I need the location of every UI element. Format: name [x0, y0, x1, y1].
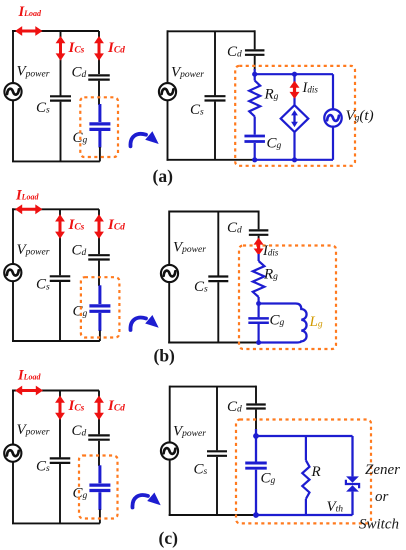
wire: Cs branch lower (c-right)	[216, 457, 218, 515]
wire: Cd branch blue lower (b-left)	[98, 313, 101, 331]
wire: Cs branch lower (a-left)	[60, 102, 62, 162]
node bottom-left (c-right)	[253, 512, 259, 518]
wire: section (b) left circuit left side lower	[12, 281, 14, 342]
wire: blue bottom rail (a-right)	[255, 159, 333, 161]
capacitor Cs (b-left)	[50, 275, 71, 277]
capacitor Cg (a-right)	[244, 135, 265, 138]
svg-text:Vpower: Vpower	[17, 64, 50, 80]
svg-text:Vpower: Vpower	[171, 65, 204, 81]
orange dashed box (b-left)	[81, 277, 120, 337]
wire: section (b) left circuit left side upper	[12, 208, 14, 264]
current arrow ILoad (a-left)	[21, 30, 37, 33]
AC source Vpower (a-right)	[159, 83, 176, 100]
capacitor Cg blue (b-left)	[89, 304, 110, 307]
svg-text:Cs: Cs	[36, 100, 50, 116]
capacitor Cd (a-right)	[245, 49, 265, 51]
svg-text:Cd: Cd	[72, 65, 87, 81]
wire: Rg-Cg link (a-right)	[254, 117, 256, 135]
current arrow ICd (b-left)	[98, 220, 101, 233]
current arrow ICd (c-left)	[98, 401, 101, 414]
wire: Cd branch upper (b-right)	[258, 211, 260, 230]
wire: Vg branch lower (a-right)	[332, 127, 334, 160]
dependent current source diamond (a-right)	[281, 105, 309, 132]
svg-text:ICd: ICd	[107, 40, 125, 56]
wire: Cg bottom lead (c-right)	[255, 470, 257, 515]
wire: Cd branch blue lower (c-left)	[98, 492, 101, 510]
wire: section (b) left circuit top rail	[12, 208, 99, 210]
AC source Vpower (b-left)	[4, 264, 21, 281]
wire: Cs branch upper (c-left)	[59, 391, 61, 458]
capacitor Cs (a-right)	[205, 95, 226, 97]
AC source Vpower (a-left)	[4, 83, 21, 100]
wire: Cd branch bottom black (a-left)	[99, 147, 101, 161]
resistor Rg (b-right)	[253, 261, 265, 297]
wire: Cs branch upper (b-right)	[217, 212, 219, 276]
wire: section (a) right circuit bottom rail black	[167, 159, 256, 161]
current arrow ICd (a-left)	[98, 42, 101, 55]
resistor Rg (a-right)	[249, 81, 260, 117]
svg-text:Cg: Cg	[270, 313, 285, 329]
wire: Cd below cap black (c-right)	[255, 410, 257, 430]
wire: Vg branch upper (a-right)	[332, 74, 334, 109]
capacitor Cd (c-left)	[88, 434, 110, 436]
wire: Cs branch upper (a-left)	[60, 31, 62, 96]
wire: Cs branch lower (c-left)	[59, 464, 61, 523]
svg-text:Vpower: Vpower	[17, 422, 50, 438]
svg-text:ILoad: ILoad	[18, 4, 43, 20]
node top-mid (a-right)	[292, 72, 297, 77]
svg-text:R: R	[311, 464, 321, 480]
orange dashed box (a-right)	[235, 66, 355, 166]
svg-text:Zener: Zener	[365, 462, 400, 478]
wire: section (c) left circuit bottom rail	[12, 522, 100, 524]
capacitor Cd (a-left)	[88, 74, 110, 76]
wire: section (a) right left side lower	[167, 100, 169, 161]
wire: section (c) left circuit top rail	[12, 390, 99, 392]
wire: Cd branch bottom black (c-left)	[99, 509, 101, 523]
wire: section (c) left circuit left side lower	[12, 462, 14, 524]
wire: Cd branch upper (c-right)	[255, 386, 257, 404]
svg-text:Cd: Cd	[227, 44, 242, 60]
svg-text:Vth: Vth	[327, 499, 344, 515]
wire: Cd branch bottom black (b-left)	[99, 330, 101, 341]
svg-text:Vpower: Vpower	[173, 424, 206, 440]
wire: blue top rail (a-right)	[255, 73, 333, 75]
zener diode (c-right)	[346, 476, 359, 482]
wire: Cs branch lower (a-right)	[214, 102, 216, 160]
svg-text:Cd: Cd	[72, 423, 87, 439]
wire: R branch top lead (c-right)	[305, 436, 307, 460]
svg-text:ICs: ICs	[68, 398, 85, 414]
svg-text:Vpower: Vpower	[173, 240, 206, 256]
wire: section (a) left circuit left side upper	[12, 30, 14, 83]
wire: Cs branch upper (a-right)	[214, 31, 216, 95]
svg-text:(a): (a)	[153, 166, 174, 186]
svg-text:Idis: Idis	[302, 80, 319, 96]
svg-text:(b): (b)	[154, 346, 176, 366]
wire: section (c) right left side upper	[169, 386, 171, 443]
wire: Cd branch blue upper (c-left)	[98, 465, 101, 483]
wire: Cg bottom lead (a-right)	[254, 143, 256, 160]
blue curved arrow (b)	[130, 318, 146, 330]
wire: Rg branch top lead (a-right)	[254, 74, 256, 80]
svg-text:Cs: Cs	[36, 459, 50, 475]
wire: blue bottom rail (c-right)	[256, 514, 353, 516]
svg-text:Cd: Cd	[227, 220, 242, 236]
capacitor Cs (a-left)	[50, 95, 71, 97]
svg-text:Cd: Cd	[72, 243, 87, 259]
wire: Cd branch mid black (b-left)	[98, 261, 100, 286]
wire: section (a) right circuit top rail	[168, 30, 255, 32]
wire: Cd branch mid black (c-left)	[98, 441, 100, 466]
wire: Cs branch lower (b-right)	[217, 282, 219, 342]
AC source Vpower (c-left)	[4, 445, 21, 462]
current arrow ICs (a-left)	[59, 42, 62, 55]
wire: Cs branch upper (b-left)	[59, 209, 61, 275]
node top-left of blue network (a-right)	[252, 72, 257, 77]
current arrow ILoad (b-left)	[21, 208, 37, 211]
wire: section (b) left circuit bottom rail	[12, 340, 100, 342]
svg-text:Cg: Cg	[267, 136, 282, 152]
wire: blue top rail (c-right)	[256, 435, 353, 437]
wire: Cd to node blue (c-right)	[255, 429, 257, 436]
wire: section (c) right circuit bottom rail black	[169, 514, 256, 516]
blue curved arrow (a)	[130, 134, 146, 146]
capacitor Cs (c-left)	[50, 457, 71, 459]
wire: Cd branch upper (c-left)	[98, 391, 100, 435]
current arrow Idis (a-right)	[293, 86, 296, 93]
svg-text:Vg(t): Vg(t)	[346, 108, 374, 124]
svg-text:(c): (c)	[159, 528, 179, 548]
wire: Cd branch upper (b-left)	[98, 209, 100, 254]
node upper (b-right)	[256, 301, 261, 306]
orange dashed box (a-left)	[80, 97, 118, 157]
svg-text:ILoad: ILoad	[17, 368, 42, 384]
current arrow ILoad (c-left)	[21, 389, 38, 392]
wire: section (c) left circuit left side upper	[12, 390, 14, 445]
wire: Cd below cap (b-right)	[258, 236, 260, 240]
capacitor Cd (b-left)	[88, 254, 110, 256]
wire: section (a) left circuit bottom rail	[12, 160, 100, 162]
wire: section (b) right left side lower	[168, 282, 170, 343]
AC source Vpower (c-right)	[161, 442, 178, 459]
wire: Cd branch mid black (a-left)	[98, 81, 100, 105]
capacitor Cg blue (a-left)	[89, 122, 110, 125]
svg-text:Cg: Cg	[261, 471, 276, 487]
wire: Rg to node (b-right)	[258, 297, 260, 304]
orange dashed box (c-right)	[236, 420, 371, 524]
capacitor Cg (b-right)	[248, 317, 269, 320]
capacitor Cs (b-right)	[208, 275, 228, 277]
wire: section (b) right circuit top rail	[169, 211, 258, 213]
wire: Cs branch upper (c-right)	[216, 387, 218, 451]
node lower (b-right)	[256, 340, 261, 345]
node bottom-mid (a-right)	[292, 157, 297, 162]
svg-text:Cs: Cs	[36, 277, 50, 293]
svg-text:ICd: ICd	[107, 217, 125, 233]
wire: R bottom lead (c-right)	[305, 499, 307, 515]
svg-text:Cd: Cd	[227, 399, 242, 415]
svg-text:Switch: Switch	[359, 517, 399, 533]
wire: Cg top lead (b-right)	[258, 304, 260, 318]
wire: section (a) right left side upper	[167, 30, 169, 83]
wire: Idis to Rg blue (b-right)	[258, 254, 260, 261]
wire: Cd branch blue lower (a-left)	[98, 131, 101, 148]
svg-text:Cs: Cs	[194, 279, 208, 295]
wire: Cg top lead (c-right)	[255, 436, 257, 462]
svg-text:ICs: ICs	[68, 217, 85, 233]
current arrow ICs (b-left)	[59, 220, 62, 233]
svg-text:ICd: ICd	[107, 398, 125, 414]
AC source Vpower (b-right)	[161, 265, 178, 282]
inductor Lg (b-right)	[259, 304, 307, 343]
wire: Cd branch upper (a-right)	[254, 30, 256, 49]
svg-text:Cs: Cs	[190, 102, 204, 118]
svg-text:ICs: ICs	[68, 40, 85, 56]
current arrow ICs (c-left)	[59, 401, 62, 414]
wire: Cd branch below cap black (a-right)	[254, 56, 256, 70]
wire: Cg bottom lead (b-right)	[258, 324, 260, 343]
wire: section (c) right circuit top rail	[170, 386, 256, 388]
wire: section (b) right left side upper	[168, 211, 170, 266]
capacitor Cg blue (c-left)	[89, 484, 110, 487]
capacitor Cs (c-right)	[207, 450, 227, 452]
wire: Cs branch lower (b-left)	[59, 282, 61, 341]
svg-text:Cs: Cs	[194, 462, 208, 478]
svg-text:ILoad: ILoad	[15, 188, 40, 204]
capacitor Cd (b-right)	[249, 229, 269, 231]
resistor R (c-right)	[302, 460, 309, 499]
capacitor Cd (c-right)	[246, 403, 266, 405]
wire: Cd branch upper (a-left)	[98, 31, 100, 74]
wire: section (c) right left side lower	[169, 460, 171, 516]
wire: Cd to node blue (a-right)	[254, 69, 256, 74]
node bottom-left (a-right)	[252, 157, 257, 162]
wire: diamond bottom lead (a-right)	[293, 132, 295, 160]
blue curved arrow (c)	[132, 495, 148, 507]
wire: section (a) left circuit top rail	[12, 30, 99, 32]
svg-text:Vpower: Vpower	[17, 242, 50, 258]
svg-text:Lg: Lg	[309, 314, 323, 330]
wire: zener bottom lead (c-right)	[351, 492, 353, 515]
svg-text:or: or	[375, 489, 389, 505]
orange dashed box (c-left)	[79, 456, 118, 519]
wire: Cd branch blue upper (b-left)	[98, 285, 101, 304]
wire: Idis branch upper blue (a-right)	[293, 74, 295, 105]
svg-text:Cg: Cg	[73, 304, 88, 320]
svg-text:Rg: Rg	[264, 87, 279, 103]
wire: Cd branch blue upper (a-left)	[98, 104, 101, 122]
svg-text:Rg: Rg	[263, 267, 278, 283]
current arrow Idis (b-right)	[257, 243, 260, 250]
orange dashed box (b-right)	[239, 246, 336, 350]
capacitor Cg (c-right)	[245, 462, 267, 465]
node top-left (c-right)	[253, 433, 259, 439]
wire: section (a) left circuit left side lower	[12, 100, 14, 162]
wire: section (b) right circuit bottom rail black	[168, 342, 258, 344]
wire: zener top lead (c-right)	[351, 436, 353, 476]
AC source Vg(t) (a-right)	[324, 109, 341, 126]
